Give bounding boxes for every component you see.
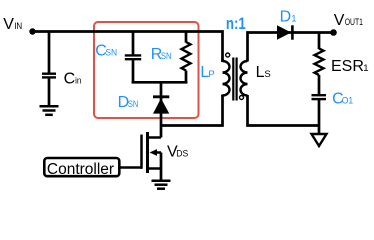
ground earth under mosfet — [152, 181, 171, 189]
wire secondary top — [248, 33, 334, 62]
body arrow line — [155, 151, 161, 154]
svg-text:ESR1: ESR1 — [331, 58, 369, 75]
wire CO1 lower — [318, 100, 321, 135]
diode D1 triangle — [277, 25, 291, 39]
wire CSN branch upper — [132, 32, 135, 56]
diode DSN triangle — [153, 98, 169, 113]
snubber highlight box — [94, 22, 199, 118]
transformer polarity dot secondary — [240, 96, 244, 100]
drain stub — [148, 136, 162, 139]
diode D1 cathode bar — [291, 25, 294, 39]
wire Cin branch upper — [48, 32, 51, 74]
wire primary bottom — [161, 95, 223, 126]
transformer secondary winding LS — [241, 61, 248, 96]
ground triangle output — [312, 134, 327, 146]
channel plate — [146, 132, 149, 173]
wire RSN branch upper — [185, 32, 188, 43]
wire DSN vertical — [160, 82, 163, 138]
node VIN dot — [29, 28, 35, 34]
gate plate — [140, 135, 143, 169]
resistor RSN — [182, 42, 191, 71]
transformer core — [233, 58, 236, 101]
svg-text:Controller: Controller — [47, 161, 114, 178]
diode DSN cathode bar — [153, 95, 169, 98]
capacitor CSN — [125, 55, 141, 59]
wire secondary bottom — [248, 95, 320, 126]
wire ESR to CO1 — [318, 75, 321, 95]
gate lead wire — [119, 166, 142, 169]
wire ESR branch upper — [318, 33, 321, 50]
wire primary winding stubs — [221, 59, 224, 62]
wire snubber bottom rail — [132, 81, 188, 84]
wire main input rail — [33, 32, 223, 62]
controller box — [44, 158, 119, 176]
transformer primary winding LP — [223, 61, 230, 96]
svg-text:n:1: n:1 — [226, 14, 246, 33]
wire Cin branch lower — [48, 78, 51, 106]
source vertical — [160, 153, 163, 182]
transformer polarity dot primary — [226, 53, 230, 57]
body arrow head — [150, 149, 158, 156]
capacitor Cin — [42, 74, 56, 78]
wire RSN branch lower — [185, 71, 188, 84]
node VOUT1 dot — [330, 29, 337, 36]
capacitor CO1 — [312, 95, 327, 99]
resistor ESR1 — [315, 49, 324, 76]
wire CSN branch lower — [132, 60, 135, 84]
transistor Q1 mosfet — [119, 132, 161, 181]
source stub — [148, 167, 162, 170]
ground earth under Cin — [40, 106, 59, 115]
